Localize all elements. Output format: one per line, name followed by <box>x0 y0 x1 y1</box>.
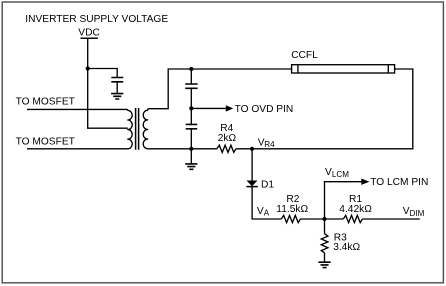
wire divider node up to LCM arrow <box>325 182 362 219</box>
CCFL lamp tube <box>292 65 395 73</box>
wire divider node down to R3 <box>324 219 326 234</box>
wire diode to VA rail <box>252 187 281 219</box>
junction dot node VR4 <box>250 147 254 151</box>
svg-text:TO LCM PIN: TO LCM PIN <box>370 177 428 188</box>
junction dot OVD node <box>189 106 193 110</box>
svg-text:INVERTER SUPPLY VOLTAGE: INVERTER SUPPLY VOLTAGE <box>25 14 168 25</box>
capacitor C1 (upper divider) <box>185 84 197 88</box>
resistor R4 <box>217 145 236 152</box>
svg-text:VDC: VDC <box>78 27 100 38</box>
arrow to LCM pin <box>361 179 369 185</box>
CCFL electrode right <box>387 65 389 73</box>
wire VR4 to CCFL return (right loop) <box>252 69 413 149</box>
resistor R1 <box>343 215 362 222</box>
wire R3 to ground <box>324 253 326 262</box>
svg-text:LCM: LCM <box>332 170 349 179</box>
svg-text:R4: R4 <box>264 140 275 149</box>
svg-text:TO MOSFET: TO MOSFET <box>16 97 75 108</box>
wire C1 to OVD node <box>190 88 192 108</box>
transformer T1 secondary winding <box>143 109 149 149</box>
capacitor C2 (lower divider) <box>190 108 192 124</box>
svg-text:2kΩ: 2kΩ <box>218 133 237 144</box>
ground (R3) <box>318 262 330 267</box>
svg-text:4.42kΩ: 4.42kΩ <box>339 204 372 215</box>
svg-text:CCFL: CCFL <box>291 50 318 61</box>
wire VR4 down to diode D1 <box>251 149 253 181</box>
svg-text:DIM: DIM <box>410 209 425 218</box>
wire VDC down to transformer center tap <box>88 38 128 128</box>
wire secondary bottom to R4 <box>149 148 217 150</box>
wire secondary top to high-voltage rail <box>149 69 292 109</box>
svg-text:D1: D1 <box>261 179 274 190</box>
diode D1 <box>247 181 258 187</box>
wire HV rail junction to capacitor C1 <box>190 69 192 84</box>
svg-text:TO MOSFET: TO MOSFET <box>16 137 75 148</box>
wire R4 to node VR4 <box>236 148 252 150</box>
capacitor (VDC bypass) <box>111 78 123 82</box>
CCFL electrode left <box>297 65 299 73</box>
svg-text:A: A <box>264 209 270 218</box>
wire TO MOSFET top to transformer primary <box>27 108 127 110</box>
transformer T1 core <box>136 108 139 150</box>
arrow to OVD pin <box>226 105 234 111</box>
wire TO MOSFET bottom to transformer primary <box>27 148 127 150</box>
svg-text:11.5kΩ: 11.5kΩ <box>276 204 308 215</box>
svg-text:3.4kΩ: 3.4kΩ <box>333 242 360 253</box>
wire OVD node to arrow <box>191 107 226 109</box>
ground (secondary low) <box>190 149 192 164</box>
junction dot VDC node <box>86 66 90 70</box>
wire capacitor to ground <box>116 82 118 94</box>
junction dot HV rail <box>189 67 193 71</box>
junction dot divider node <box>322 217 326 221</box>
wire R2 to divider junction <box>300 218 343 220</box>
transformer T1 primary winding <box>127 109 133 148</box>
junction dot secondary-low node <box>189 147 193 151</box>
ground (VDC bypass) <box>111 94 123 99</box>
svg-text:TO OVD PIN: TO OVD PIN <box>235 104 294 115</box>
wire VDC node to bypass capacitor <box>88 69 118 78</box>
resistor R3 <box>321 234 328 253</box>
VDC terminal bar <box>81 37 98 39</box>
resistor R2 <box>281 215 300 222</box>
wire R1 to VDIM terminal <box>362 218 419 220</box>
